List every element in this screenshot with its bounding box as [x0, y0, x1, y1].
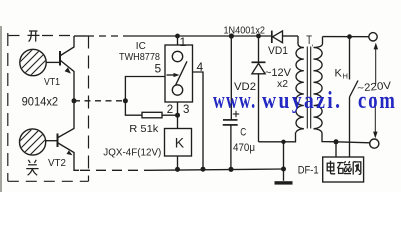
- wire node B to relay coil: [177, 115, 179, 128]
- svg-text:5: 5: [155, 62, 162, 76]
- svg-text:VD1: VD1: [268, 45, 288, 57]
- node VD2 rail: [256, 34, 261, 39]
- AC source arrow down: [374, 97, 376, 132]
- op-amp/switch IC U1 TWH8778 body: [165, 45, 193, 102]
- svg-text:1N4001x2: 1N4001x2: [224, 25, 266, 36]
- label guan (close): [26, 160, 38, 175]
- capacitor C1 polarity plus: [233, 113, 239, 115]
- svg-text:VT1: VT1: [44, 77, 60, 88]
- svg-text:H: H: [343, 72, 348, 81]
- wire primary bottom run to mains terminal 2: [322, 133, 370, 143]
- transformer T core: [306, 47, 308, 129]
- svg-text:DF-1: DF-1: [298, 164, 319, 176]
- label kai (open): [28, 31, 40, 42]
- wire IC pin5 run: [125, 77, 165, 116]
- IC internal contact upper: [172, 51, 182, 61]
- label ~220V: [357, 80, 392, 95]
- resistor R 51k: [142, 112, 162, 118]
- wire emitter-collector node to pin5 branch (dashed): [74, 100, 125, 102]
- transistor VT1: [46, 36, 74, 101]
- ground: [275, 181, 293, 184]
- svg-text:R 51k: R 51k: [129, 123, 159, 135]
- node pin4 ground: [201, 167, 206, 172]
- svg-text:K: K: [335, 68, 343, 80]
- touch plate electrode E1 (open): [14, 37, 54, 86]
- wire top supply rail: [74, 35, 87, 37]
- transformer T primary winding: [314, 37, 323, 48]
- svg-text:2: 2: [167, 104, 173, 116]
- node Kh rail: [347, 34, 352, 39]
- node VT1-VT2: [72, 98, 77, 103]
- diode VD1 1N4001: [272, 31, 283, 43]
- solenoid valve DF-1 box: [323, 157, 364, 182]
- watermark com: [358, 88, 397, 115]
- node C ground: [228, 167, 233, 172]
- IC internal contact lower: [172, 85, 182, 95]
- node secondary return: [281, 140, 285, 144]
- wire solenoid feed: [335, 142, 337, 157]
- svg-text:K: K: [175, 134, 185, 150]
- svg-text:4: 4: [197, 60, 204, 74]
- node pin5 branch: [123, 98, 128, 103]
- wire primary top to mains terminal: [323, 36, 369, 38]
- terminal mains N: [370, 139, 379, 148]
- IC internal switch blade: [176, 61, 188, 85]
- svg-text:1: 1: [180, 35, 187, 49]
- touch plate electrode E2 (close): [14, 117, 54, 166]
- transistor VT2: [46, 101, 79, 171]
- touch sensor dashed enclosure box: [8, 33, 89, 181]
- label dian ci fa (solenoid valve): [327, 161, 361, 175]
- svg-text:,: ,: [311, 39, 313, 48]
- svg-text:C: C: [240, 127, 246, 139]
- node pin1 rail: [175, 34, 180, 39]
- wire bottom ground rail: [148, 169, 284, 170]
- node solenoid branch: [334, 139, 339, 144]
- wire secondary lower end to VD2 anode: [259, 133, 296, 142]
- node C top: [229, 33, 234, 38]
- node B pins2-3/R/K: [175, 113, 180, 118]
- wire relay coil to ground rail: [177, 156, 179, 170]
- relay coil K box: [165, 129, 192, 157]
- svg-text:JQX-4F(12V): JQX-4F(12V): [103, 148, 161, 159]
- watermark wuyazi.: [262, 88, 342, 115]
- wire ground branch: [283, 142, 285, 181]
- capacitor C1 plates: [223, 119, 238, 121]
- svg-text:470μ: 470μ: [233, 142, 255, 154]
- scan edge artifact: [0, 26, 2, 192]
- diode VD2 1N4001: [252, 36, 266, 142]
- svg-text:3: 3: [183, 104, 189, 116]
- terminal mains L: [369, 33, 377, 41]
- watermark www.: [213, 88, 257, 115]
- node K ground: [175, 167, 180, 172]
- transformer T secondary winding: [298, 36, 304, 48]
- wire ground-return dashed segment: [80, 169, 148, 171]
- svg-text:IC: IC: [136, 41, 146, 52]
- capacitor C1 470u feed wire: [230, 36, 232, 120]
- IC internal control arrow: [167, 74, 177, 76]
- IC pins 2,3 lead: [177, 102, 179, 115]
- svg-text:VT2: VT2: [48, 157, 66, 169]
- node ground rail end: [281, 167, 286, 172]
- IC pin 4 lead to ground rail: [193, 72, 204, 169]
- wire R to node B: [162, 114, 178, 116]
- IC pin 1 lead: [177, 36, 179, 45]
- AC source arrow up: [375, 48, 377, 85]
- svg-text:9014x2: 9014x2: [22, 96, 59, 108]
- relay contact Kh: [349, 37, 351, 80]
